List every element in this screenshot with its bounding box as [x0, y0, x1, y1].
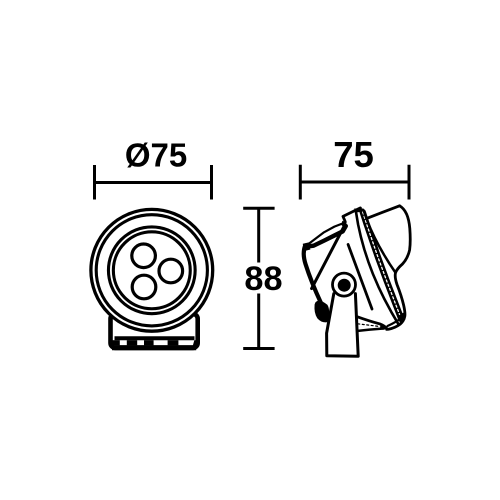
housing left edge: [304, 246, 321, 304]
rim line A: [356, 212, 399, 324]
clamp tab peak: [354, 209, 365, 213]
LED 1: [132, 244, 156, 268]
pivot bolt outer ring: [333, 273, 356, 296]
svg-text:88: 88: [244, 260, 282, 298]
svg-text:Ø75: Ø75: [125, 137, 187, 174]
rim dotted seam: [363, 212, 402, 319]
base bottom band: [112, 345, 196, 350]
flap top edge: [357, 317, 386, 329]
bracket arm corner filler: [303, 242, 311, 251]
lens dome silhouette and bottom edge: [387, 206, 411, 329]
dimension line 88: [243, 208, 274, 348]
stem: [327, 294, 359, 357]
base inner line: [115, 336, 195, 340]
dimension line 75: [300, 165, 409, 200]
bracket arm top edge (side view): [307, 222, 345, 245]
dimension line Ø75: [95, 165, 212, 200]
svg-text:75: 75: [333, 134, 374, 175]
body silhouette diagonal: [312, 226, 345, 289]
mounting base (front view): [111, 314, 198, 348]
bottom corner mass: [399, 312, 406, 324]
LED 2: [159, 259, 183, 283]
body inner highlight line: [348, 245, 372, 310]
inner ring: [113, 232, 190, 309]
LED 3: [132, 275, 156, 299]
bezel top edge: [368, 206, 399, 218]
flap dashed mid-line: [358, 324, 378, 327]
bracket arm tip filler: [342, 221, 347, 229]
pivot bolt head: [338, 279, 351, 292]
bracket arm lower band: [307, 226, 346, 247]
cable gland: [314, 301, 329, 323]
housing outer ring (front view): [91, 209, 213, 331]
bezel edge line C: [364, 211, 396, 273]
base slots: [113, 340, 197, 346]
body bottom inner line: [388, 317, 403, 326]
housing second ring: [96, 215, 207, 326]
clamp tab left edge: [343, 208, 360, 222]
flap bottom edge: [358, 329, 384, 331]
rim band B (double edge): [363, 212, 402, 319]
bezel ring: [108, 227, 195, 314]
flap tip wedge: [380, 323, 387, 329]
